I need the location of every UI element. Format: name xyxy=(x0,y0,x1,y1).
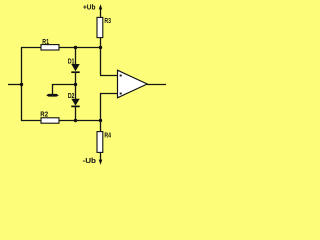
node junction D2 bottom xyxy=(74,119,77,122)
svg-text:-Ub: -Ub xyxy=(83,158,97,165)
wire +Ub supply drop xyxy=(100,9,102,18)
wire node A down to inverting input xyxy=(100,47,102,75)
wire inverting input horizontal xyxy=(100,75,118,77)
svg-text:R3: R3 xyxy=(104,18,111,25)
resistor R1 xyxy=(41,39,59,50)
diode D1 xyxy=(68,59,80,73)
wire noninverting input vertical xyxy=(100,93,102,121)
diode D2 xyxy=(68,93,80,106)
wire R3 bottom lead xyxy=(100,38,102,47)
node junction input xyxy=(20,83,23,86)
node junction R4 top xyxy=(99,119,102,122)
wire R2 left lead xyxy=(21,120,41,122)
wire R1 left lead xyxy=(21,47,41,49)
wire D1 anode lead xyxy=(75,47,77,64)
ground xyxy=(46,94,59,97)
svg-text:R1: R1 xyxy=(42,39,49,46)
op-amp U1 xyxy=(118,70,148,98)
wire ground drop xyxy=(52,84,54,94)
wire R2 right lead to node xyxy=(59,120,101,122)
wire ground horizontal xyxy=(52,84,76,86)
+Ub supply arrow xyxy=(99,4,103,9)
svg-text:D1: D1 xyxy=(68,59,75,66)
node junction ground-diode xyxy=(74,83,77,86)
wire R4 bottom lead to -Ub xyxy=(100,152,102,160)
wire D2 cathode lead xyxy=(75,106,77,121)
wire op-amp output xyxy=(147,84,166,86)
svg-text:R4: R4 xyxy=(104,133,111,140)
wire R1 right lead to node xyxy=(59,47,101,49)
node junction R3 bottom xyxy=(99,46,102,49)
wire input stub xyxy=(8,84,21,86)
wire R4 top lead xyxy=(100,120,102,131)
svg-text:D2: D2 xyxy=(68,93,75,100)
resistor R3 xyxy=(97,17,111,37)
wire noninverting input horizontal xyxy=(100,93,118,95)
wire D1 cathode to D2 anode xyxy=(75,72,77,99)
node junction D1 top xyxy=(74,46,77,49)
svg-text:R2: R2 xyxy=(40,111,48,118)
-Ub supply arrow xyxy=(99,160,103,165)
resistor R2 xyxy=(40,111,59,123)
svg-text:+Ub: +Ub xyxy=(83,5,96,12)
resistor R4 xyxy=(97,132,111,153)
wire left vertical bus xyxy=(21,47,23,121)
